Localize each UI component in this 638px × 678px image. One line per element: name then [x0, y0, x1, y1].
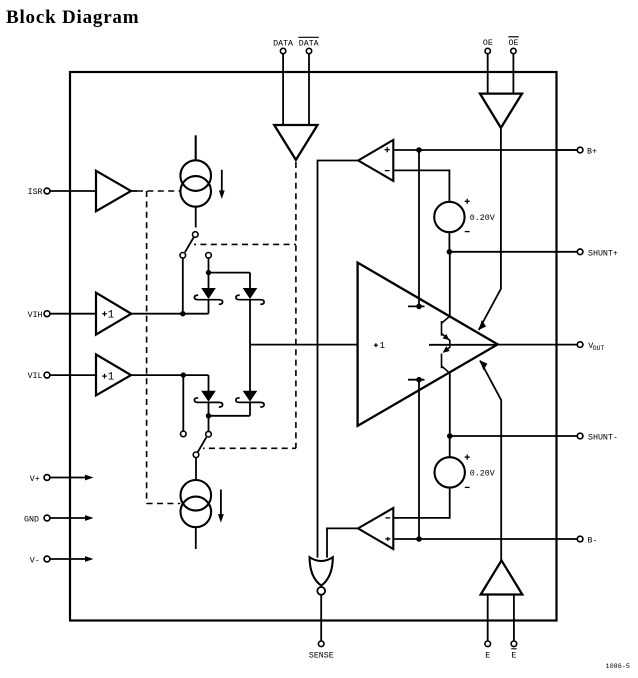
schottky diode D2 — [236, 289, 264, 345]
wire ISR output stub — [131, 190, 137, 192]
svg-text:SHUNT-: SHUNT- — [588, 434, 618, 443]
svg-text:DATA: DATA — [273, 39, 293, 48]
svg-text:B+: B+ — [587, 147, 597, 156]
svg-text:OE: OE — [483, 39, 493, 48]
arrowhead OE onto op-amp — [479, 320, 486, 330]
wire E enable vertical — [480, 361, 501, 561]
svg-text:VIH: VIH — [28, 311, 43, 320]
dashed wire ISR to top current source — [137, 190, 180, 192]
svg-text:1: 1 — [108, 309, 115, 321]
svg-text:1: 1 — [380, 341, 385, 351]
dashed wire DATA to bottom switch — [203, 447, 296, 449]
dashed wire DATA control vertical — [295, 162, 297, 448]
buffer DATA (inverting down) — [274, 125, 317, 160]
svg-text:OE: OE — [509, 39, 519, 48]
terminal SENSE — [309, 641, 334, 660]
schottky diode D1 — [194, 289, 222, 314]
bias tap lower (bar+dot) — [408, 377, 425, 539]
wire A2 output — [327, 528, 358, 557]
terminal E — [485, 595, 491, 661]
terminal SHUNT- — [577, 433, 618, 442]
terminal SHUNT+ — [577, 249, 618, 259]
op-amp U1 +1 — [358, 263, 498, 426]
junction VIL/switch — [181, 372, 186, 377]
switch S1 (top) — [180, 232, 211, 314]
svg-text:VIL: VIL — [28, 372, 43, 381]
junction top diode node — [206, 270, 211, 275]
wire collector rail lower — [449, 373, 451, 436]
wire bottom diode node — [209, 415, 251, 417]
junction A2/bias — [416, 536, 422, 542]
schottky diode D3 — [194, 375, 222, 416]
svg-text:E: E — [485, 651, 490, 660]
wire top diode node — [209, 272, 251, 274]
svg-text:1: 1 — [108, 372, 115, 384]
arrowhead E onto op-amp — [480, 361, 487, 371]
buffer OE (down) — [480, 94, 522, 128]
junction SHUNT- — [447, 433, 453, 439]
comparator A1 (top) — [358, 140, 393, 181]
wire SHUNT+ line — [449, 251, 577, 253]
wire SHUNT- line — [450, 435, 578, 437]
wire A2 + input / B- line — [393, 538, 577, 540]
wire VIL output — [131, 374, 209, 376]
svg-text:0.20V: 0.20V — [470, 214, 495, 223]
switch S2 (bottom) — [181, 375, 212, 480]
terminal VIH — [28, 311, 96, 320]
terminal DATA — [273, 39, 293, 125]
terminal OE-bar — [508, 37, 518, 94]
buffer VIH +1 — [96, 293, 131, 335]
dashed wire to bottom current source — [147, 503, 181, 505]
junction bottom diode node — [206, 413, 211, 418]
terminal B- — [577, 536, 597, 545]
svg-text:DATA: DATA — [299, 39, 319, 48]
junction SHUNT+ — [447, 249, 453, 255]
svg-text:GND: GND — [24, 515, 39, 524]
current source I1 (top) — [180, 135, 211, 227]
svg-text:E: E — [511, 651, 516, 660]
current source I2 (bottom) — [181, 480, 212, 549]
terminal GND — [24, 515, 94, 524]
voltage source V2 0.20V — [393, 436, 494, 518]
wire A1 - input — [393, 170, 449, 202]
terminal V- — [30, 556, 94, 565]
terminal DATA-bar — [298, 37, 318, 125]
chip boundary box — [70, 72, 557, 621]
wire A1 + input / B+ line — [393, 149, 577, 151]
buffer E (up) — [481, 560, 523, 594]
wire collector rail upper — [449, 252, 451, 316]
svg-text:1086-5: 1086-5 — [606, 663, 630, 671]
terminal OE — [483, 39, 493, 94]
buffer ISR — [96, 171, 131, 211]
dashed wire ISR control vertical — [146, 191, 148, 504]
svg-text:SENSE: SENSE — [309, 651, 334, 660]
comparator A2 (bottom) — [358, 508, 393, 549]
terminal VIL — [28, 372, 96, 381]
schottky diode D4 — [236, 345, 264, 416]
wire A1 output — [318, 161, 359, 558]
dashed wire DATA to top switch — [194, 243, 296, 245]
svg-text:ISR: ISR — [28, 188, 43, 197]
terminal ISR — [28, 188, 96, 197]
voltage source V1 0.20V — [434, 199, 495, 252]
buffer VIL +1 — [96, 354, 131, 395]
transistor Q1 (NPN top) — [442, 316, 450, 345]
wire OE enable vertical — [479, 128, 501, 330]
gate G1 NOR — [310, 557, 333, 595]
svg-text:V-: V- — [30, 556, 40, 565]
wire VIH output — [131, 313, 208, 315]
wire SENSE output — [320, 595, 322, 641]
wire op-amp input — [250, 344, 358, 346]
terminal VOUT — [498, 342, 605, 352]
arrow I1 direction — [219, 170, 225, 199]
arrow I2 direction — [218, 490, 224, 523]
junction VIH/switch — [180, 311, 185, 316]
svg-text:Block Diagram: Block Diagram — [6, 7, 139, 28]
terminal B+ — [557, 147, 597, 156]
svg-text:0.20V: 0.20V — [470, 469, 495, 478]
svg-text:V+: V+ — [30, 475, 40, 484]
terminal V+ — [30, 475, 94, 484]
svg-text:OUT: OUT — [593, 345, 605, 352]
bias tap upper (bar+dot) — [408, 150, 425, 309]
terminal E-bar — [511, 595, 517, 661]
transistor Q2 (PNP bottom) — [442, 345, 450, 373]
wire op-amp internal output — [429, 344, 498, 346]
svg-text:B-: B- — [588, 536, 598, 545]
junction A1/bias — [416, 147, 422, 153]
svg-text:SHUNT+: SHUNT+ — [588, 250, 618, 259]
